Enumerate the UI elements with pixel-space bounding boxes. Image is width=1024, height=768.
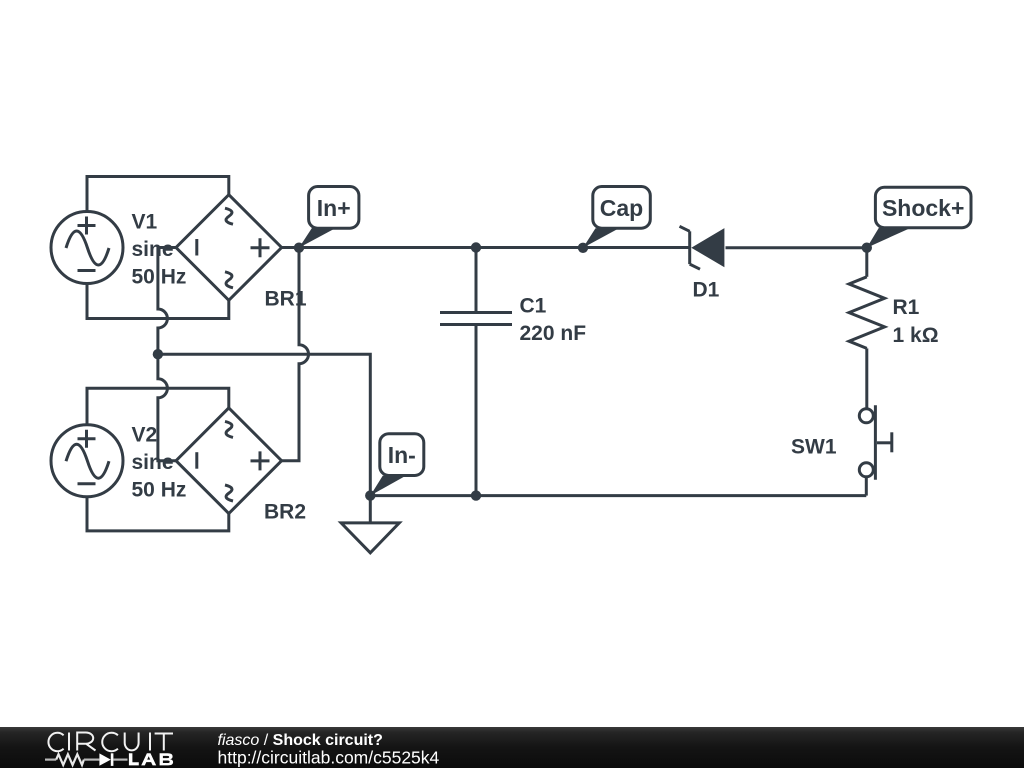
bridge rectifier BR2 xyxy=(176,408,282,514)
junction node xyxy=(153,349,163,359)
wire V2 bottom loop xyxy=(87,497,229,531)
svg-text:1 kΩ: 1 kΩ xyxy=(893,324,939,347)
node In- xyxy=(365,490,375,500)
wire BR1 plus to BR2 plus xyxy=(282,248,309,461)
logo CIRCUIT wordmark xyxy=(48,733,173,752)
zener diode D1 xyxy=(680,226,725,269)
logo resistor-diode glyph xyxy=(45,753,128,766)
svg-text:D1: D1 xyxy=(693,279,720,302)
svg-text:Shock+: Shock+ xyxy=(882,195,964,221)
node C1 top xyxy=(471,242,481,252)
switch SW1 xyxy=(859,405,892,495)
node Cap xyxy=(578,243,588,253)
svg-text:C1: C1 xyxy=(520,295,547,318)
wire top rail right of D1 xyxy=(726,246,867,249)
svg-text:V2: V2 xyxy=(132,423,158,446)
flag In+ xyxy=(299,187,359,248)
svg-text:In+: In+ xyxy=(317,195,351,221)
wire BR1 minus to BR2 minus xyxy=(158,248,176,461)
wire V2 top loop xyxy=(87,388,229,424)
node C1 bottom xyxy=(471,490,481,500)
wire top rail left of D1 xyxy=(282,246,689,249)
ground xyxy=(341,496,399,553)
svg-text:In-: In- xyxy=(388,442,416,468)
logo LAB wordmark xyxy=(129,753,173,765)
wire V1 top loop xyxy=(87,177,229,212)
label R1 value xyxy=(893,296,939,347)
svg-text:fiasco / Shock circuit?: fiasco / Shock circuit? xyxy=(218,732,383,749)
svg-text:50 Hz: 50 Hz xyxy=(132,478,187,501)
footer bar xyxy=(0,727,1024,768)
svg-text:R1: R1 xyxy=(893,296,920,319)
wire mid rail to In- xyxy=(158,354,370,495)
flag In- xyxy=(370,434,424,496)
flag Shock+ xyxy=(867,187,971,247)
svg-text:SW1: SW1 xyxy=(791,436,837,459)
resistor R1 xyxy=(849,248,885,409)
wire bottom rail xyxy=(370,494,866,497)
label C1 value xyxy=(520,295,587,346)
svg-text:BR2: BR2 xyxy=(264,501,306,524)
wire V1 bottom loop xyxy=(87,284,229,319)
voltage source V2 xyxy=(51,425,123,497)
svg-text:V1: V1 xyxy=(132,210,158,233)
svg-text:sine: sine xyxy=(132,451,174,474)
svg-text:Cap: Cap xyxy=(600,195,643,221)
svg-text:http://circuitlab.com/c5525k4: http://circuitlab.com/c5525k4 xyxy=(218,748,440,768)
bridge rectifier BR1 xyxy=(176,195,282,301)
node In+ xyxy=(294,243,304,253)
flag Cap xyxy=(583,187,650,248)
node Shock+ xyxy=(862,243,872,253)
voltage source V1 xyxy=(51,212,123,284)
svg-text:220 nF: 220 nF xyxy=(520,322,587,345)
capacitor C1 xyxy=(440,248,512,496)
svg-text:sine: sine xyxy=(132,238,174,261)
